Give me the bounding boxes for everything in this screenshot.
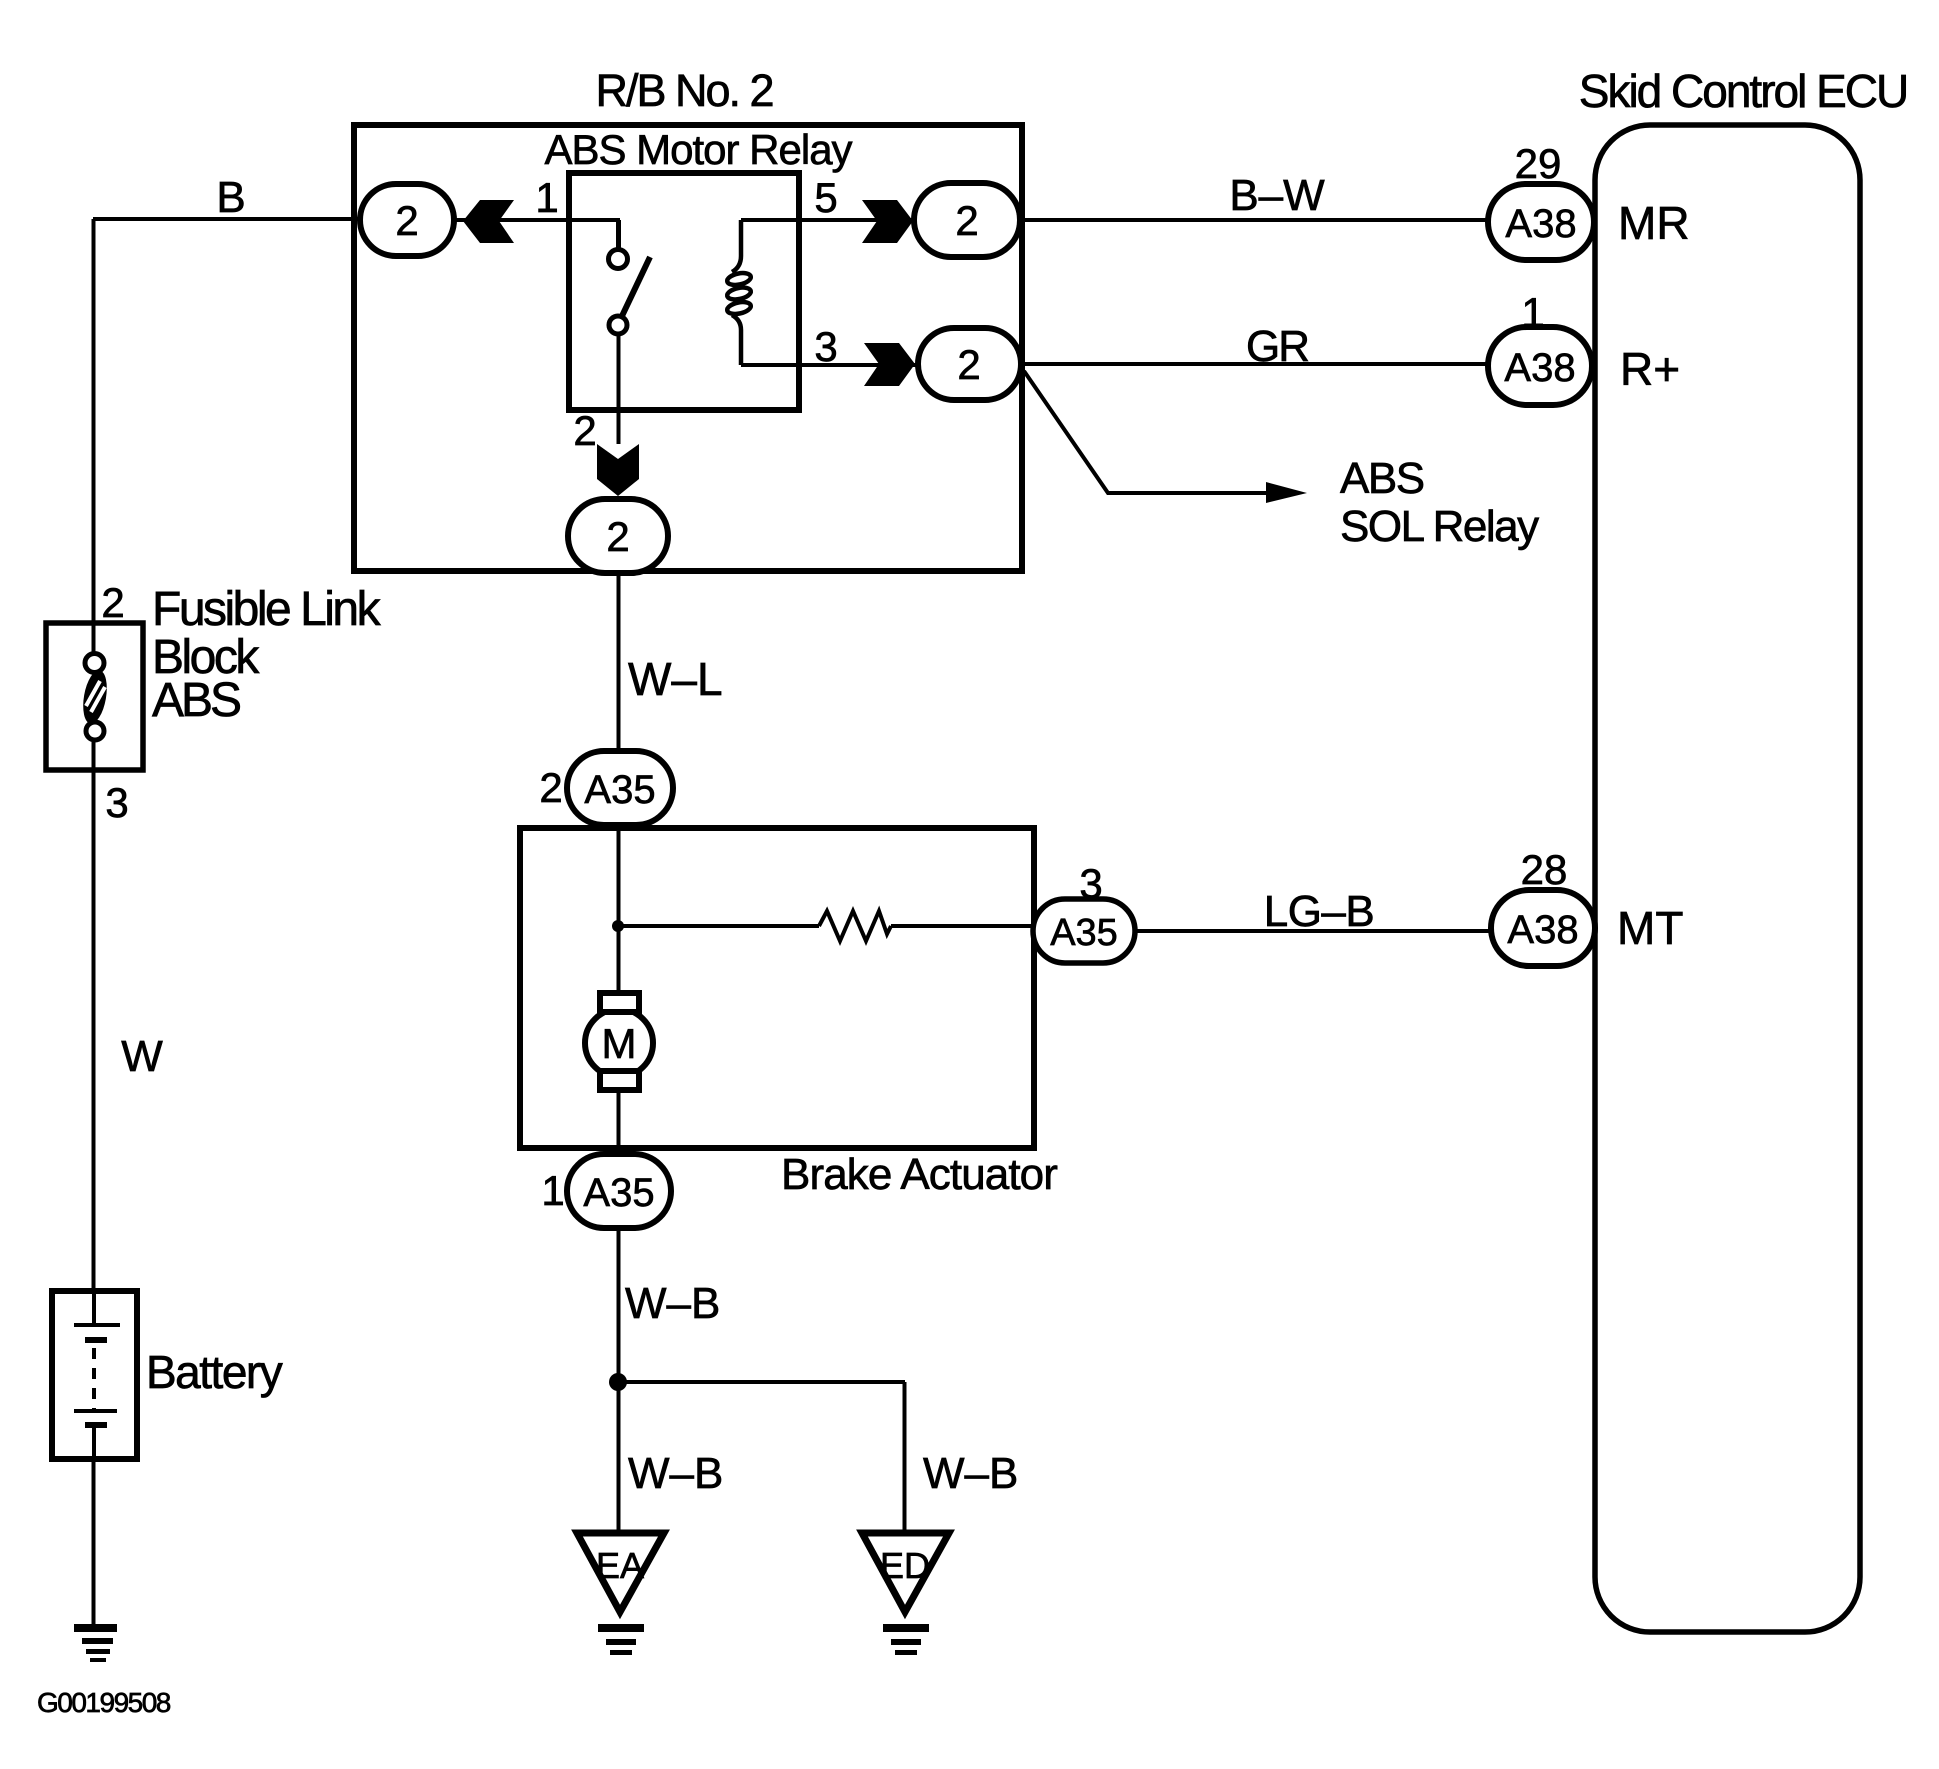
connector A35 pin 3 <box>1033 899 1135 963</box>
ground EA <box>577 1533 664 1655</box>
svg-text:ABS: ABS <box>1340 454 1424 503</box>
wire GR to ECU <box>1020 362 1489 366</box>
relay block R/B No.2 box <box>354 125 1022 571</box>
arrow left (toward connector 2) <box>463 200 514 243</box>
svg-text:29: 29 <box>1515 140 1562 187</box>
svg-text:Battery: Battery <box>146 1346 283 1398</box>
arrow down (pin 2) <box>597 444 639 496</box>
wire resistor to A35 pin3 <box>891 924 1035 928</box>
connector 2 (left, pin 1 of relay) <box>360 184 454 256</box>
resistor (brake actuator internal) <box>819 911 891 941</box>
connector A35 pin 1 <box>567 1154 671 1228</box>
svg-text:B–W: B–W <box>1229 171 1325 220</box>
wire B-W to ECU <box>1017 218 1489 222</box>
svg-text:A35: A35 <box>1050 912 1118 954</box>
svg-text:Skid Control ECU: Skid Control ECU <box>1579 65 1907 117</box>
svg-text:2: 2 <box>955 197 978 244</box>
wire pin 5 <box>741 218 917 222</box>
svg-text:W–L: W–L <box>628 653 723 705</box>
ground (battery) <box>74 1624 117 1662</box>
wire motor feed vertical <box>617 824 621 994</box>
svg-text:2: 2 <box>395 197 418 244</box>
svg-text:B: B <box>216 173 245 222</box>
svg-text:ED: ED <box>880 1545 930 1586</box>
connector A38 pin 29 <box>1488 184 1594 260</box>
wire W-B branch vertical to ED <box>903 1382 907 1548</box>
connector A38 pin 1 <box>1488 327 1592 405</box>
svg-text:Brake Actuator: Brake Actuator <box>781 1150 1057 1199</box>
svg-text:3: 3 <box>105 779 128 826</box>
ground ED <box>862 1533 949 1655</box>
svg-text:28: 28 <box>1521 846 1568 893</box>
svg-text:W–B: W–B <box>628 1449 723 1498</box>
svg-text:Fusible Link: Fusible Link <box>152 583 382 636</box>
svg-text:3: 3 <box>814 323 837 370</box>
arrow right (pin 3) <box>864 343 915 386</box>
svg-text:SOL Relay: SOL Relay <box>1340 502 1539 551</box>
motor M (pump motor) <box>585 993 653 1090</box>
battery symbol <box>74 1291 120 1459</box>
svg-text:MT: MT <box>1617 902 1683 954</box>
svg-text:A35: A35 <box>584 768 655 812</box>
label ABS SOL Relay <box>1340 454 1539 551</box>
svg-text:R+: R+ <box>1620 343 1680 395</box>
svg-text:R/B No. 2: R/B No. 2 <box>595 65 772 116</box>
wire pin 3 <box>741 363 919 367</box>
fusible link element <box>79 623 110 770</box>
svg-text:M: M <box>602 1020 637 1067</box>
svg-text:2: 2 <box>606 513 629 560</box>
wire LG-B to ECU <box>1135 929 1491 933</box>
ABS SOL Relay callout leader <box>1024 371 1307 503</box>
svg-text:G00199508: G00199508 <box>37 1687 171 1718</box>
svg-text:W–B: W–B <box>923 1449 1018 1498</box>
svg-text:2: 2 <box>101 579 124 626</box>
svg-text:ABS Motor Relay: ABS Motor Relay <box>544 126 852 173</box>
node W-B junction <box>609 1373 627 1391</box>
node junction (motor/resistor) <box>612 920 624 932</box>
svg-text:ABS: ABS <box>152 674 240 727</box>
svg-text:GR: GR <box>1246 322 1308 371</box>
svg-text:2: 2 <box>573 407 596 454</box>
connector A35 pin 2 <box>567 751 673 825</box>
svg-text:A38: A38 <box>1505 202 1576 246</box>
wire W-B branch horizontal <box>618 1380 905 1384</box>
Skid Control ECU box <box>1595 125 1860 1632</box>
relay switch <box>609 220 651 444</box>
arrow right (pin 5) <box>862 200 913 243</box>
relay coil <box>726 220 752 365</box>
svg-text:W: W <box>121 1032 163 1081</box>
wire motor to A35 pin1 <box>617 1089 621 1156</box>
battery box <box>52 1291 137 1459</box>
svg-text:A38: A38 <box>1504 346 1575 390</box>
wire W (fusible link to battery) <box>92 770 96 1292</box>
svg-text:MR: MR <box>1618 197 1690 249</box>
svg-text:A35: A35 <box>583 1171 654 1215</box>
svg-text:2: 2 <box>539 764 562 811</box>
wire left vertical to fusible link <box>92 219 96 624</box>
wire battery to ground <box>92 1459 96 1628</box>
fusible link block box <box>46 623 143 770</box>
brake actuator box <box>520 828 1034 1148</box>
svg-text:1: 1 <box>541 1167 564 1214</box>
wire B (battery feed, horizontal) <box>93 217 360 221</box>
wire W-B vertical <box>617 1228 621 1548</box>
ABS motor relay inner box <box>569 173 799 410</box>
svg-text:A38: A38 <box>1507 908 1578 952</box>
svg-text:EA: EA <box>596 1545 644 1586</box>
connector 2 (right top, pin 5) <box>914 183 1020 257</box>
svg-text:5: 5 <box>814 174 837 221</box>
connector 2 (bottom of relay block) <box>568 499 668 573</box>
connector A38 pin 28 <box>1491 890 1595 966</box>
wire to resistor <box>618 924 819 928</box>
svg-text:LG–B: LG–B <box>1264 887 1375 936</box>
svg-text:2: 2 <box>957 341 980 388</box>
svg-text:W–B: W–B <box>625 1279 720 1328</box>
wire W-L (relay block to brake actuator) <box>617 571 621 753</box>
svg-text:1: 1 <box>535 174 558 221</box>
connector 2 (right lower, pin 3) <box>918 328 1021 400</box>
label Fusible Link Block ABS <box>152 583 382 727</box>
wire pin1 inside relay box <box>454 218 620 222</box>
